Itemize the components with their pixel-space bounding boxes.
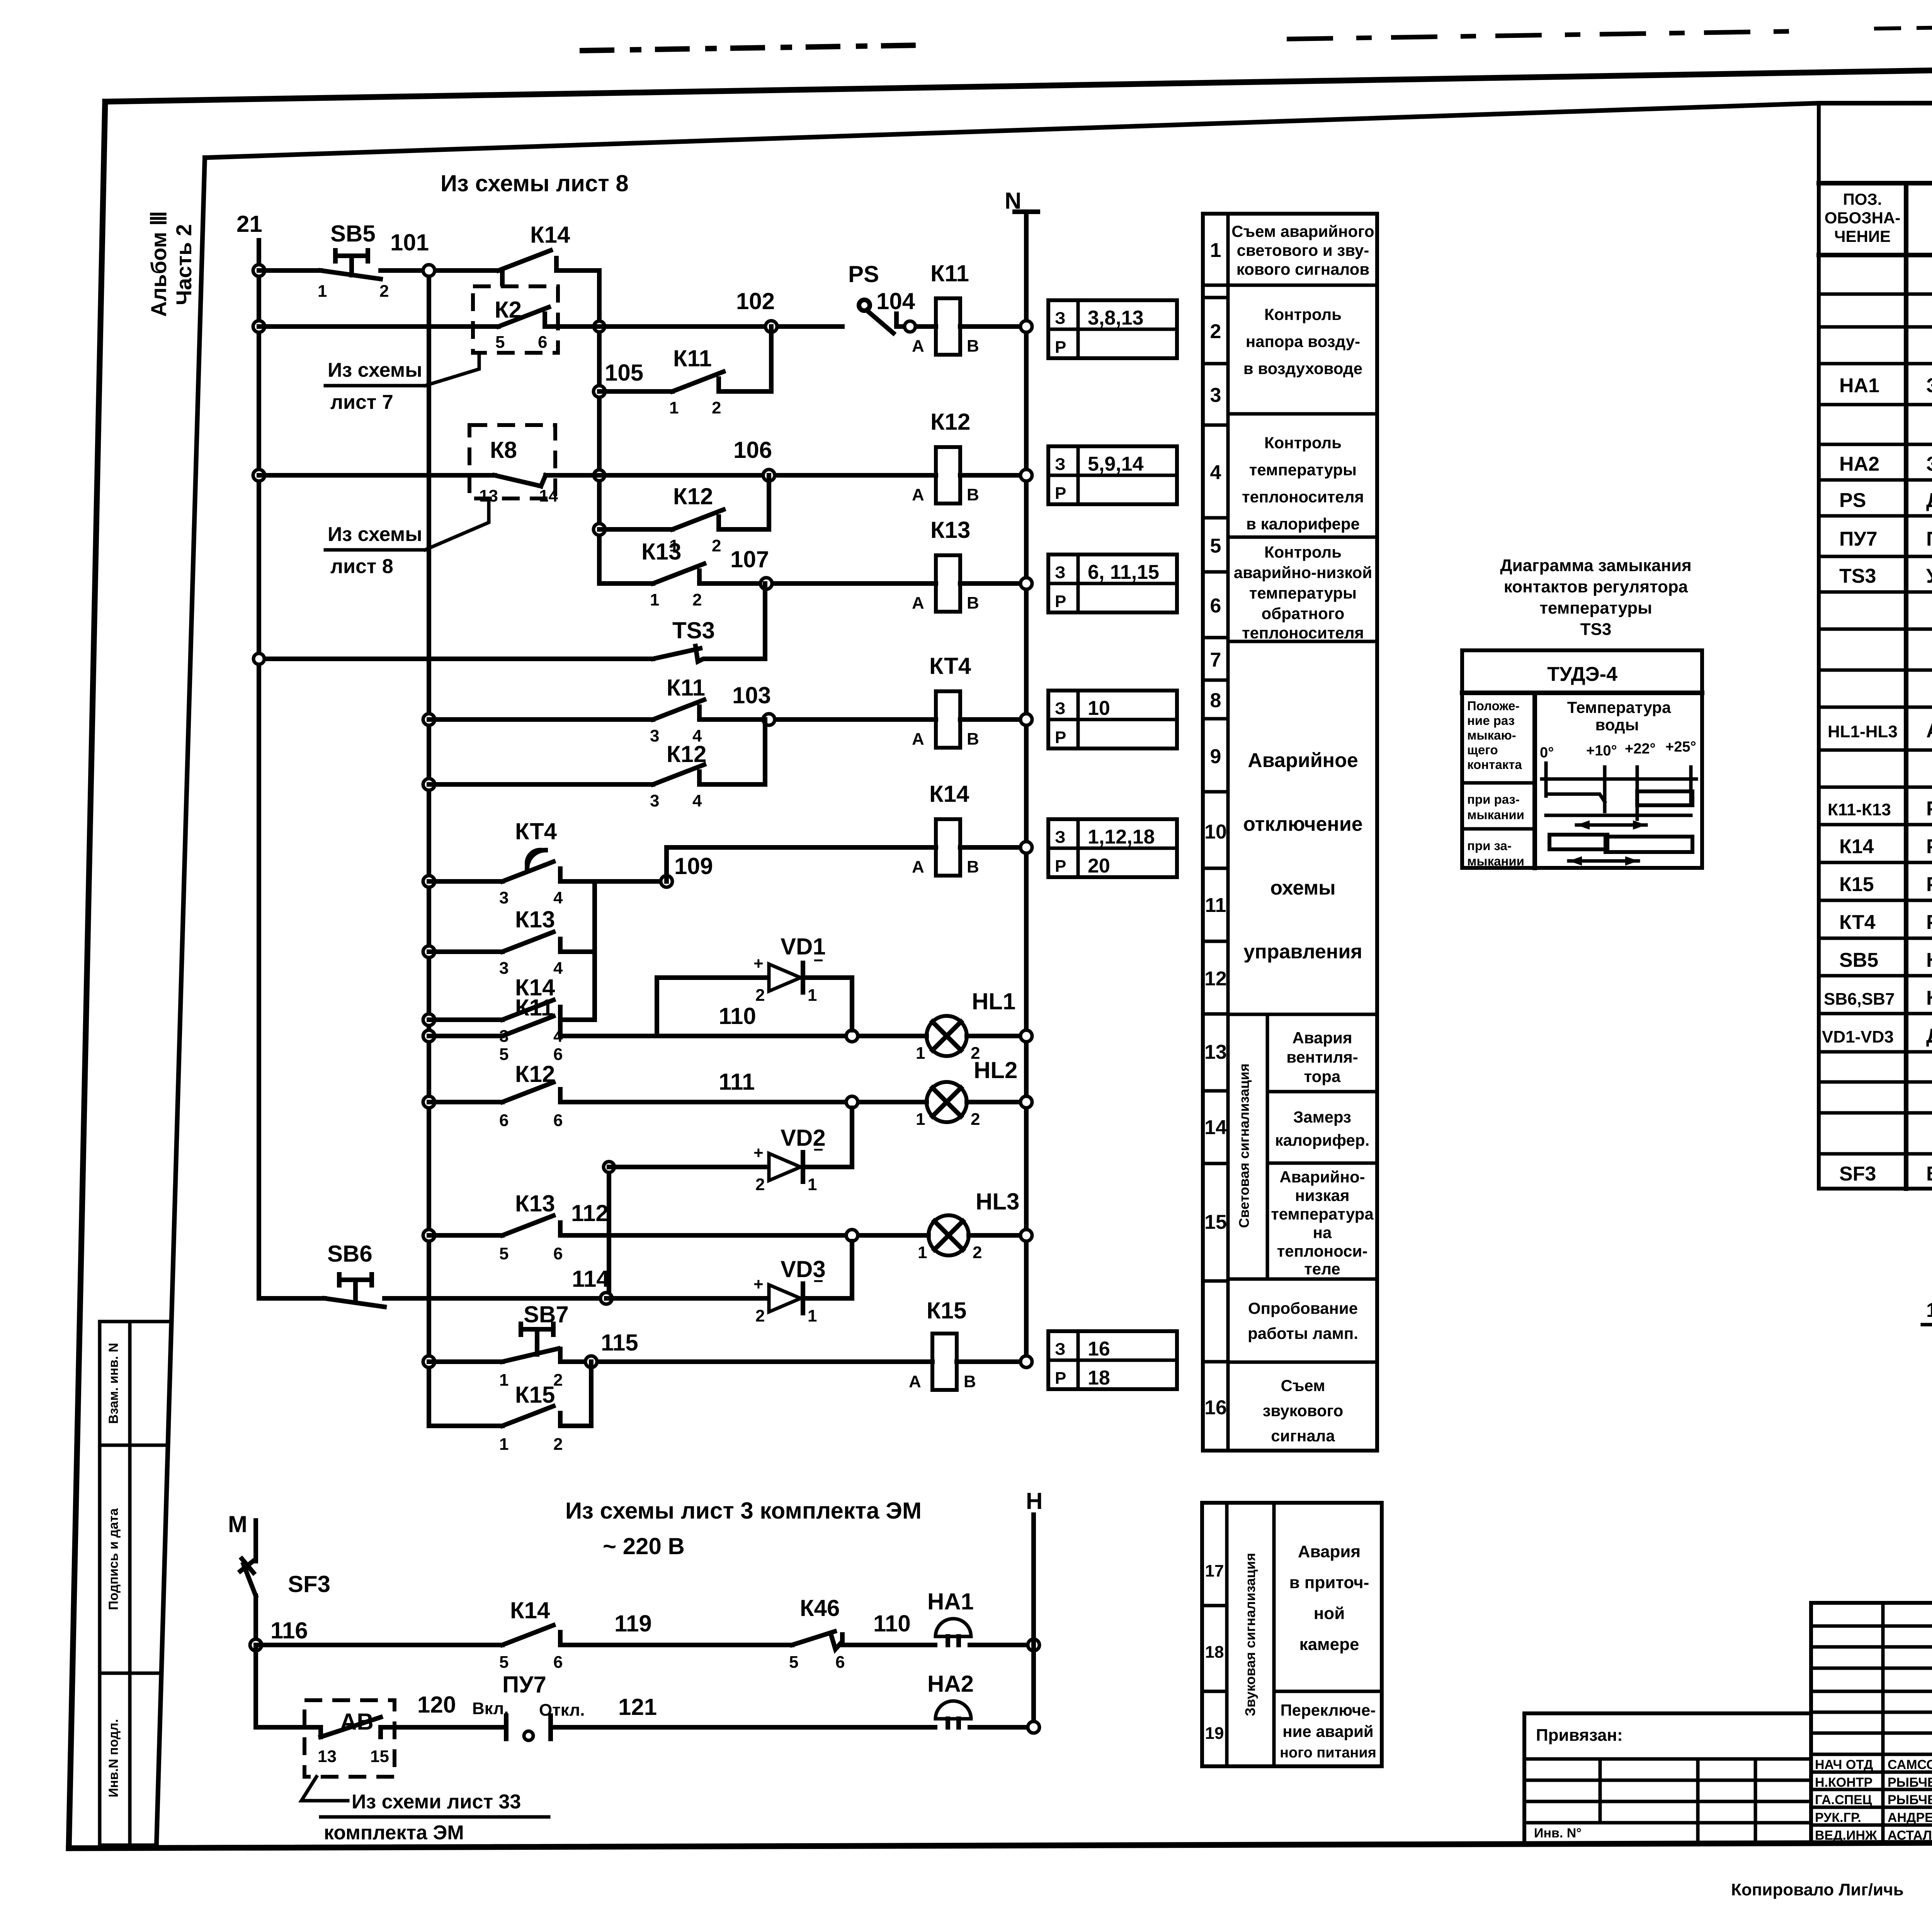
svg-text:111: 111 — [719, 1069, 755, 1095]
branch K13 3-4 — [423, 907, 595, 978]
svg-text:13: 13 — [318, 1747, 337, 1766]
svg-text:К11-К13: К11-К13 — [1828, 800, 1891, 819]
bus N top tick — [1015, 209, 1038, 214]
svg-text:лист 7: лист 7 — [330, 391, 393, 413]
svg-text:температуры: температуры — [1249, 461, 1357, 479]
svg-text:при за-: при за- — [1467, 839, 1512, 853]
svg-text:5,9,14: 5,9,14 — [1088, 453, 1144, 475]
wire 102 — [545, 324, 842, 329]
svg-text:Из схемы: Из схемы — [328, 523, 422, 546]
svg-text:7: 7 — [1210, 649, 1221, 671]
svg-text:З: З — [1055, 309, 1066, 328]
privyazan box — [1524, 1713, 1811, 1843]
svg-text:К11: К11 — [667, 675, 705, 701]
svg-text:101: 101 — [390, 230, 429, 255]
svg-text:НАЧ ОТД: НАЧ ОТД — [1815, 1757, 1873, 1772]
svg-text:121: 121 — [618, 1694, 657, 1720]
svg-text:Устройство терморегулирующее: Устройство терморегулирующее ТУДЭ-4 — [1926, 565, 1932, 587]
svg-text:Опробование: Опробование — [1248, 1299, 1358, 1317]
wire rung HA2 — [256, 1725, 321, 1730]
svg-text:1: 1 — [499, 1371, 509, 1390]
svg-text:камере: камере — [1299, 1635, 1359, 1654]
svg-text:1: 1 — [808, 1306, 817, 1325]
svg-text:Из схемы: Из схемы — [328, 359, 422, 381]
svg-text:КТ4: КТ4 — [515, 818, 557, 844]
svg-text:SF3: SF3 — [288, 1571, 330, 1597]
svg-text:114: 114 — [572, 1266, 609, 1292]
connector drop 1551 — [597, 270, 602, 583]
svg-text:Р: Р — [1055, 857, 1066, 876]
top edge scan artifacts — [580, 45, 920, 51]
svg-text:VD1-VD3: VD1-VD3 — [1822, 1027, 1894, 1046]
wire rung HA1 — [256, 1643, 502, 1647]
svg-text:комплекта ЭМ: комплекта ЭМ — [324, 1822, 464, 1844]
svg-text:2: 2 — [692, 590, 702, 609]
svg-text:+: + — [753, 1275, 764, 1294]
branch K11 1-2 — [594, 327, 771, 417]
node on N — [1020, 321, 1032, 332]
svg-text:102: 102 — [736, 288, 775, 314]
left grid rows — [1811, 1626, 1932, 1825]
svg-text:Температура: Температура — [1567, 698, 1671, 716]
svg-text:на: на — [1313, 1223, 1332, 1242]
wire 106 — [546, 473, 936, 478]
svg-text:Положе-: Положе- — [1467, 699, 1520, 713]
svg-text:5: 5 — [1210, 535, 1221, 557]
outer border top — [105, 58, 1932, 102]
svg-text:Из схеми лист 33: Из схеми лист 33 — [352, 1791, 521, 1813]
svg-text:калорифер.: калорифер. — [1275, 1131, 1370, 1149]
svg-text:З: З — [1055, 828, 1066, 847]
note: из схемы лист 7 — [325, 353, 479, 413]
rung K11 5-6 with lamp HL1 — [423, 988, 1032, 1064]
svg-text:В: В — [967, 857, 979, 876]
svg-text:1: 1 — [650, 590, 659, 609]
bus B — [427, 270, 431, 1426]
svg-text:РЫБЧЕНКО: РЫБЧЕНКО — [1888, 1793, 1932, 1807]
right column row lines — [1228, 284, 1377, 287]
svg-text:4: 4 — [553, 888, 563, 907]
svg-text:SF3: SF3 — [1839, 1163, 1876, 1185]
row lines — [1819, 294, 1932, 1154]
svg-text:теплоносителя: теплоносителя — [1242, 624, 1364, 642]
svg-text:мыкании: мыкании — [1467, 854, 1524, 868]
svg-text:Диод Д 226Б: Диод Д 226Б — [1926, 1025, 1932, 1047]
svg-text:Реле РПУ-2- М36400УЗБ И~22: Реле РПУ-2- М36400УЗБ И~220 В — [1926, 835, 1932, 858]
svg-text:TS3: TS3 — [1580, 620, 1612, 639]
svg-text:К46: К46 — [800, 1595, 840, 1621]
svg-text:напора возду-: напора возду- — [1246, 332, 1360, 350]
node 101 — [423, 265, 435, 276]
svg-text:ние аварий: ние аварий — [1282, 1722, 1374, 1740]
svg-text:HL1: HL1 — [972, 988, 1015, 1014]
rows content — [1839, 374, 1932, 587]
svg-text:Контроль: Контроль — [1264, 543, 1342, 561]
svg-text:1: 1 — [1210, 239, 1221, 262]
svg-text:SB6: SB6 — [327, 1241, 372, 1267]
svg-text:К14: К14 — [929, 781, 969, 807]
svg-text:0°: 0° — [1540, 745, 1554, 761]
svg-text:15: 15 — [370, 1747, 389, 1766]
svg-text:К14: К14 — [1839, 835, 1874, 858]
svg-text:Звуковая сигнализация: Звуковая сигнализация — [1242, 1553, 1258, 1716]
svg-text:обратного: обратного — [1262, 604, 1345, 623]
svg-text:1,12,18: 1,12,18 — [1088, 826, 1155, 848]
rung K13 coil (107) — [599, 517, 1032, 612]
svg-text:Арматура АС 12011У2 И: Арматура АС 12011У2 И~ 220 В — [1926, 720, 1932, 742]
svg-text:температуры: температуры — [1249, 584, 1357, 602]
signal table rows 17-19 — [1202, 1503, 1382, 1766]
pushbutton SB7 rung with coil K15 — [423, 1298, 1032, 1391]
svg-text:Из схемы лист 3 комплекта Э: Из схемы лист 3 комплекта ЭМ — [565, 1498, 922, 1524]
svg-text:НА1: НА1 — [1839, 374, 1879, 397]
svg-text:в калорифере: в калорифере — [1246, 515, 1360, 533]
svg-text:3,8,13: 3,8,13 — [1088, 307, 1144, 329]
title block — [1524, 1603, 1932, 1843]
svg-text:воды: воды — [1595, 716, 1639, 734]
svg-text:119: 119 — [614, 1611, 652, 1636]
svg-text:5: 5 — [499, 1045, 509, 1064]
crossref box K13 — [1048, 555, 1177, 612]
svg-text:19: 19 — [1205, 1724, 1224, 1743]
svg-text:Р: Р — [1055, 338, 1066, 357]
svg-text:ПОЗ.: ПОЗ. — [1843, 190, 1882, 208]
svg-text:в воздуховоде: в воздуховоде — [1243, 359, 1362, 378]
svg-text:Переключе-: Переключе- — [1281, 1701, 1376, 1719]
svg-text:К15: К15 — [927, 1298, 966, 1323]
svg-text:КТ4: КТ4 — [929, 653, 971, 679]
wire to bus — [970, 1643, 1034, 1647]
svg-text:ной: ной — [1314, 1604, 1345, 1623]
svg-text:2: 2 — [755, 1175, 765, 1194]
svg-text:14: 14 — [1204, 1116, 1227, 1139]
svg-text:Реле РПУ-2-М36 220УЗБ И~2: Реле РПУ-2-М36 220УЗБ И~220 В — [1926, 873, 1932, 896]
svg-text:Инв.N подл.: Инв.N подл. — [106, 1719, 121, 1798]
svg-text:кового сигналов: кового сигналов — [1236, 260, 1369, 278]
svg-text:+25°: +25° — [1665, 739, 1696, 755]
svg-text:6: 6 — [553, 1111, 563, 1130]
svg-text:12: 12 — [1204, 968, 1227, 990]
svg-text:SB5: SB5 — [330, 221, 376, 247]
svg-text:НА2: НА2 — [1839, 453, 1879, 475]
svg-text:охемы: охемы — [1270, 877, 1335, 899]
svg-text:+: + — [753, 954, 764, 973]
rung K11 3-4 / coil KT4 (103) — [423, 653, 1032, 748]
svg-text:14: 14 — [539, 486, 558, 505]
contact K46 — [789, 1595, 845, 1672]
crossref box K15 — [1048, 1331, 1177, 1389]
svg-text:103: 103 — [732, 682, 771, 708]
svg-text:З: З — [1055, 699, 1066, 718]
main ladder schematic — [236, 170, 1038, 1454]
svg-text:А: А — [909, 1372, 921, 1391]
svg-text:К15: К15 — [1839, 873, 1874, 896]
branch K12 3-4 — [423, 720, 765, 810]
svg-text:А: А — [912, 857, 924, 876]
contact K8 in dashed box — [469, 425, 558, 505]
svg-text:18: 18 — [1088, 1367, 1110, 1389]
node 102 — [765, 321, 777, 332]
svg-text:Аварийное: Аварийное — [1248, 749, 1358, 772]
svg-text:6, 11,15: 6, 11,15 — [1088, 561, 1159, 583]
svg-text:температура: температура — [1271, 1205, 1374, 1223]
svg-text:теплоноси-: теплоноси- — [1277, 1242, 1368, 1260]
svg-text:120: 120 — [417, 1692, 456, 1718]
wire rung 2 — [259, 324, 498, 329]
svg-text:КТ4: КТ4 — [1839, 911, 1876, 934]
svg-text:К14: К14 — [510, 1597, 550, 1623]
svg-text:−: − — [813, 1140, 823, 1159]
svg-text:тора: тора — [1304, 1067, 1341, 1085]
svg-text:К13: К13 — [930, 517, 970, 543]
svg-text:РЫБЧЕНКО: РЫБЧЕНКО — [1888, 1775, 1932, 1790]
switch PU7 — [472, 1672, 612, 1740]
svg-text:6: 6 — [538, 333, 547, 352]
svg-text:К12: К12 — [667, 741, 706, 767]
svg-text:Подпись и дата: Подпись и дата — [106, 1508, 121, 1610]
svg-text:Взам. инв. N: Взам. инв. N — [106, 1343, 121, 1424]
svg-text:К12: К12 — [930, 409, 970, 435]
svg-text:3: 3 — [499, 959, 509, 978]
svg-text:4: 4 — [692, 791, 702, 810]
svg-text:9: 9 — [1210, 745, 1221, 768]
crossref box K12 — [1048, 446, 1177, 504]
descriptions — [1231, 222, 1374, 642]
wire to bus — [970, 1725, 1034, 1730]
svg-text:Откл.: Откл. — [539, 1701, 585, 1720]
svg-text:2: 2 — [1210, 320, 1221, 343]
svg-text:звукового: звукового — [1263, 1402, 1344, 1420]
contact K14 (row1) — [498, 222, 570, 284]
svg-text:К15: К15 — [515, 1382, 555, 1408]
svg-text:К13: К13 — [515, 907, 555, 932]
svg-text:М: М — [228, 1511, 247, 1537]
bell HA2 — [927, 1671, 974, 1727]
svg-text:Съем аварийного: Съем аварийного — [1231, 222, 1374, 240]
svg-text:контактов регулятора: контактов регулятора — [1504, 577, 1688, 596]
rung K12 5-6 with lamp HL2 — [423, 1057, 1032, 1130]
bus N — [1024, 212, 1029, 1362]
svg-text:4: 4 — [1210, 461, 1221, 484]
svg-text:1: 1 — [318, 282, 327, 301]
svg-text:В: В — [967, 594, 979, 612]
svg-text:−: − — [813, 951, 823, 970]
svg-text:работы ламп.: работы ламп. — [1248, 1324, 1358, 1342]
svg-text:З: З — [1055, 455, 1066, 474]
svg-text:низкая: низкая — [1295, 1186, 1350, 1204]
svg-text:ОБОЗНА-: ОБОЗНА- — [1825, 209, 1901, 227]
svg-text:З: З — [1055, 563, 1066, 582]
wire 104 — [896, 324, 936, 329]
pressure switch PS — [848, 261, 896, 333]
svg-text:К8: К8 — [490, 437, 517, 463]
svg-text:1: 1 — [916, 1110, 925, 1129]
svg-text:Альбом Ⅲ: Альбом Ⅲ — [146, 211, 171, 317]
svg-text:1: 1 — [499, 1435, 509, 1454]
svg-text:16: 16 — [1204, 1397, 1227, 1419]
svg-text:6: 6 — [499, 1111, 509, 1130]
svg-text:Датчик реле напора: Датчик реле напора ДН -2,5 — [1926, 489, 1932, 512]
svg-text:К11: К11 — [930, 260, 969, 286]
svg-text:3: 3 — [650, 726, 659, 745]
svg-text:112: 112 — [571, 1200, 609, 1226]
svg-text:15: 15 — [1204, 1211, 1227, 1233]
svg-text:ние раз: ние раз — [1467, 713, 1515, 728]
svg-text:110: 110 — [719, 1003, 756, 1029]
branch K12 1-2 — [594, 475, 769, 555]
svg-text:10: 10 — [1204, 821, 1227, 843]
svg-text:2: 2 — [755, 986, 765, 1005]
wire 101 — [381, 268, 498, 273]
svg-text:Звонок ЗВП-220 И~220 В: Звонок ЗВП-220 И~220 В — [1926, 453, 1932, 475]
breaker SF3 — [240, 1559, 330, 1645]
svg-text:Кнопка КЕ 011УЗ испол. 5: Кнопка КЕ 011УЗ испол. 5 — [1926, 949, 1932, 971]
svg-text:6: 6 — [553, 1244, 563, 1263]
svg-text:Кнопка КЕ 011УЗ исполн.4: Кнопка КЕ 011УЗ исполн.4 — [1926, 987, 1932, 1009]
svg-text:НА2: НА2 — [927, 1671, 974, 1697]
wire rung 1 — [259, 268, 321, 273]
svg-text:ТУДЭ-4: ТУДЭ-4 — [1547, 663, 1617, 685]
contact KT4 3-4 (timed) — [423, 818, 672, 907]
svg-text:К11: К11 — [673, 345, 712, 371]
svg-text:TS3: TS3 — [672, 617, 715, 643]
relay coil K11 — [912, 260, 979, 356]
svg-text:HL1-HL3: HL1-HL3 — [1828, 722, 1898, 741]
svg-text:1: 1 — [808, 1175, 817, 1194]
wire rung 3 (106) — [259, 473, 495, 478]
contact K15 1-2 bypass — [429, 1362, 591, 1454]
svg-text:САМСОНОВ: САМСОНОВ — [1888, 1757, 1932, 1772]
svg-text:ПУ7: ПУ7 — [1839, 528, 1878, 550]
svg-text:Копировало Лиг/ичь: Копировало Лиг/ичь — [1731, 1880, 1904, 1899]
svg-text:мыкании: мыкании — [1467, 808, 1524, 822]
svg-text:аварийно-низкой: аварийно-низкой — [1234, 563, 1372, 582]
note: из схемы лист 8 — [325, 500, 489, 578]
pushbutton SB5 — [318, 221, 389, 301]
svg-text:Пост управления ПКУ 15- 21.1: Пост управления ПКУ 15- 21.111-54У2 — [1926, 528, 1932, 550]
svg-text:К13: К13 — [515, 1191, 555, 1216]
svg-text:ВЕД.ИНЖ: ВЕД.ИНЖ — [1815, 1828, 1877, 1843]
svg-text:6: 6 — [835, 1653, 845, 1672]
svg-text:SВ6,SВ7: SВ6,SВ7 — [1824, 990, 1895, 1009]
svg-text:1: 1 — [808, 986, 817, 1005]
inner frame left — [156, 158, 205, 1844]
number cells — [1203, 284, 1228, 287]
svg-text:16: 16 — [1088, 1338, 1110, 1360]
svg-text:щего: щего — [1467, 743, 1498, 757]
left grid columns — [1881, 1603, 1885, 1843]
svg-text:А: А — [912, 594, 924, 612]
signal description table (rows 1-16) — [1203, 214, 1377, 1451]
svg-text:Авария: Авария — [1293, 1029, 1352, 1047]
svg-text:5: 5 — [499, 1653, 509, 1672]
svg-text:1: 1 — [918, 1243, 927, 1262]
svg-text:Авария: Авария — [1298, 1542, 1361, 1561]
svg-text:5: 5 — [789, 1653, 798, 1672]
svg-text:В: В — [967, 337, 979, 356]
svg-text:вентиля-: вентиля- — [1286, 1048, 1358, 1066]
signature rows — [1815, 1757, 1932, 1843]
rung coil K14 (109) — [667, 781, 1032, 879]
svg-text:6: 6 — [1210, 595, 1221, 617]
svg-text:АНДРЕЕВА: АНДРЕЕВА — [1888, 1810, 1932, 1825]
svg-text:104: 104 — [876, 288, 915, 314]
svg-text:З: З — [1055, 1340, 1066, 1359]
svg-text:6: 6 — [553, 1653, 563, 1672]
svg-text:А: А — [912, 485, 924, 504]
svg-text:Съем: Съем — [1281, 1376, 1325, 1395]
crossref box K14 — [1048, 819, 1177, 877]
node 116 — [250, 1639, 262, 1651]
svg-text:3: 3 — [1210, 384, 1221, 407]
svg-text:Р: Р — [1055, 592, 1066, 611]
svg-text:АСТАЛЬЦЕВА: АСТАЛЬЦЕВА — [1888, 1828, 1932, 1843]
svg-text:5: 5 — [499, 1244, 509, 1263]
svg-text:Н.КОНТР: Н.КОНТР — [1815, 1775, 1872, 1790]
svg-text:SВ5: SВ5 — [1839, 949, 1878, 971]
svg-text:Контроль: Контроль — [1264, 305, 1342, 323]
rung K13 5-6 with lamp HL3 — [423, 1189, 1032, 1263]
svg-text:3: 3 — [650, 791, 659, 810]
svg-text:теплоносителя: теплоносителя — [1242, 488, 1364, 506]
svg-text:Часть 2: Часть 2 — [172, 224, 196, 305]
svg-text:8: 8 — [1210, 689, 1221, 712]
wire to N — [960, 324, 1026, 329]
svg-text:отключение: отключение — [1243, 813, 1362, 835]
svg-text:сигнала: сигнала — [1271, 1427, 1335, 1445]
svg-text:ного питания: ного питания — [1280, 1745, 1376, 1761]
wire 119 — [560, 1643, 792, 1647]
svg-text:−: − — [813, 1272, 823, 1291]
svg-text:Вкл.: Вкл. — [472, 1699, 509, 1718]
svg-text:2: 2 — [379, 282, 389, 301]
svg-text:1-10: 1-10 — [1926, 1299, 1932, 1322]
element list table — [1819, 103, 1932, 1189]
svg-text:Реле РПУ-2-М36400УЗБ И~220: Реле РПУ-2-М36400УЗБ И~220 В — [1926, 798, 1932, 820]
svg-text:21: 21 — [236, 211, 262, 237]
TS3 contact closing diagram — [1462, 556, 1702, 868]
svg-text:ПУ7: ПУ7 — [502, 1672, 546, 1698]
svg-text:К14: К14 — [530, 222, 570, 248]
svg-text:Р: Р — [1055, 484, 1066, 503]
svg-text:контакта: контакта — [1467, 757, 1522, 772]
svg-text:+10°: +10° — [1586, 743, 1617, 759]
K14 timed contact legend symbol — [1922, 1288, 1932, 1358]
svg-text:при раз-: при раз- — [1467, 792, 1520, 806]
vertical to coil K14 rung — [664, 847, 669, 881]
svg-text:20: 20 — [1088, 855, 1110, 877]
svg-text:1: 1 — [669, 398, 679, 417]
svg-text:теле: теле — [1304, 1260, 1340, 1278]
svg-text:~ 220 В: ~ 220 В — [603, 1533, 685, 1559]
svg-text:2: 2 — [973, 1243, 982, 1262]
diode VD1 bypass — [657, 934, 852, 1036]
crossref box KT4 — [1048, 691, 1177, 748]
wire to connector — [556, 268, 599, 273]
svg-text:Инв. N°: Инв. N° — [1534, 1826, 1582, 1840]
svg-text:17: 17 — [1205, 1561, 1224, 1580]
relay coil K12 — [912, 409, 979, 504]
svg-text:2: 2 — [712, 398, 721, 417]
svg-text:18: 18 — [1205, 1643, 1224, 1662]
svg-text:А: А — [912, 730, 924, 748]
svg-text:Выключатель А63- МУЗ Iр 10: Выключатель А63- МУЗ Iр 10 А Iотс. 1,5 I… — [1926, 1163, 1932, 1185]
pushbutton SB6 rung with diode VD3 — [259, 1241, 852, 1325]
margin stamp strip — [98, 1322, 102, 1845]
note: из схемы лист 33 комплекта ЭМ — [301, 1777, 549, 1844]
svg-text:управления: управления — [1243, 941, 1362, 963]
svg-text:светового и зву-: светового и зву- — [1237, 241, 1369, 259]
